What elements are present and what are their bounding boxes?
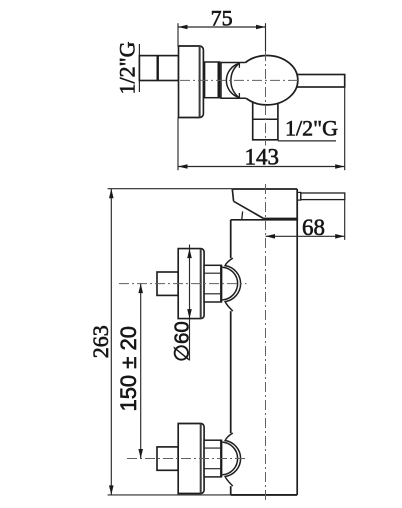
wire: lower union centerline [127,458,247,460]
wire: upper union centerline [119,283,247,285]
svg-text:263: 263 [88,325,113,358]
handle bar (side view) [297,192,345,200]
wall flange (top view) [179,46,204,118]
upper union: hex nut [204,265,221,302]
lever cap (side view) [232,189,297,220]
wire: dim 68 [266,200,345,240]
svg-text:75: 75 [211,6,233,31]
lower union: hex nut [204,440,221,477]
wire: upper flange rim edge [200,249,202,319]
upper union: pipe stub [157,272,178,295]
wire: underline of left label [138,44,140,92]
node 75 arrows [178,25,266,30]
wire: dim 75 line [178,23,266,51]
lower union: elbow dome [223,433,241,486]
cartridge cap arcs (top view) [226,64,239,98]
upper union: elbow dome [223,258,241,311]
wire: top view horizontal centerline [180,79,299,81]
upper union: flange [178,249,204,319]
wire: top view vertical centerline [265,51,267,146]
wire: side view vertical centerline [265,184,267,502]
body (side view) [231,219,298,495]
node 143 arrows [178,164,345,169]
wire: lower flange rim edge [200,424,202,494]
inlet pipe (top view) [139,56,178,81]
wire: dim 143 line [178,87,345,170]
svg-text:150 ± 20: 150 ± 20 [116,326,141,411]
svg-text:68: 68 [302,215,325,240]
neck (top view) [221,63,246,99]
handle bar (top view) [294,75,345,88]
lower union: flange [178,423,204,493]
svg-text:1/2"G: 1/2"G [115,41,140,94]
wire: pipe divider [156,56,158,81]
wire: underline of right label [278,140,336,142]
svg-text:1/2"G: 1/2"G [285,116,338,141]
wire: outlet divider [253,118,278,120]
wire: dim 263 [108,189,233,495]
svg-text:143: 143 [244,144,279,169]
hex nut (top view) [205,62,220,98]
outlet pipe below ellipse (top view) [253,96,278,140]
wire: flange rim edge [199,46,201,118]
svg-text:∅60: ∅60 [170,321,193,362]
wire: dim phi60 [189,245,191,361]
lower union: pipe stub [157,447,178,470]
wire: dim 150 +- 20 [140,284,142,459]
mixer body ellipse (top view, left cap open) [246,55,298,104]
